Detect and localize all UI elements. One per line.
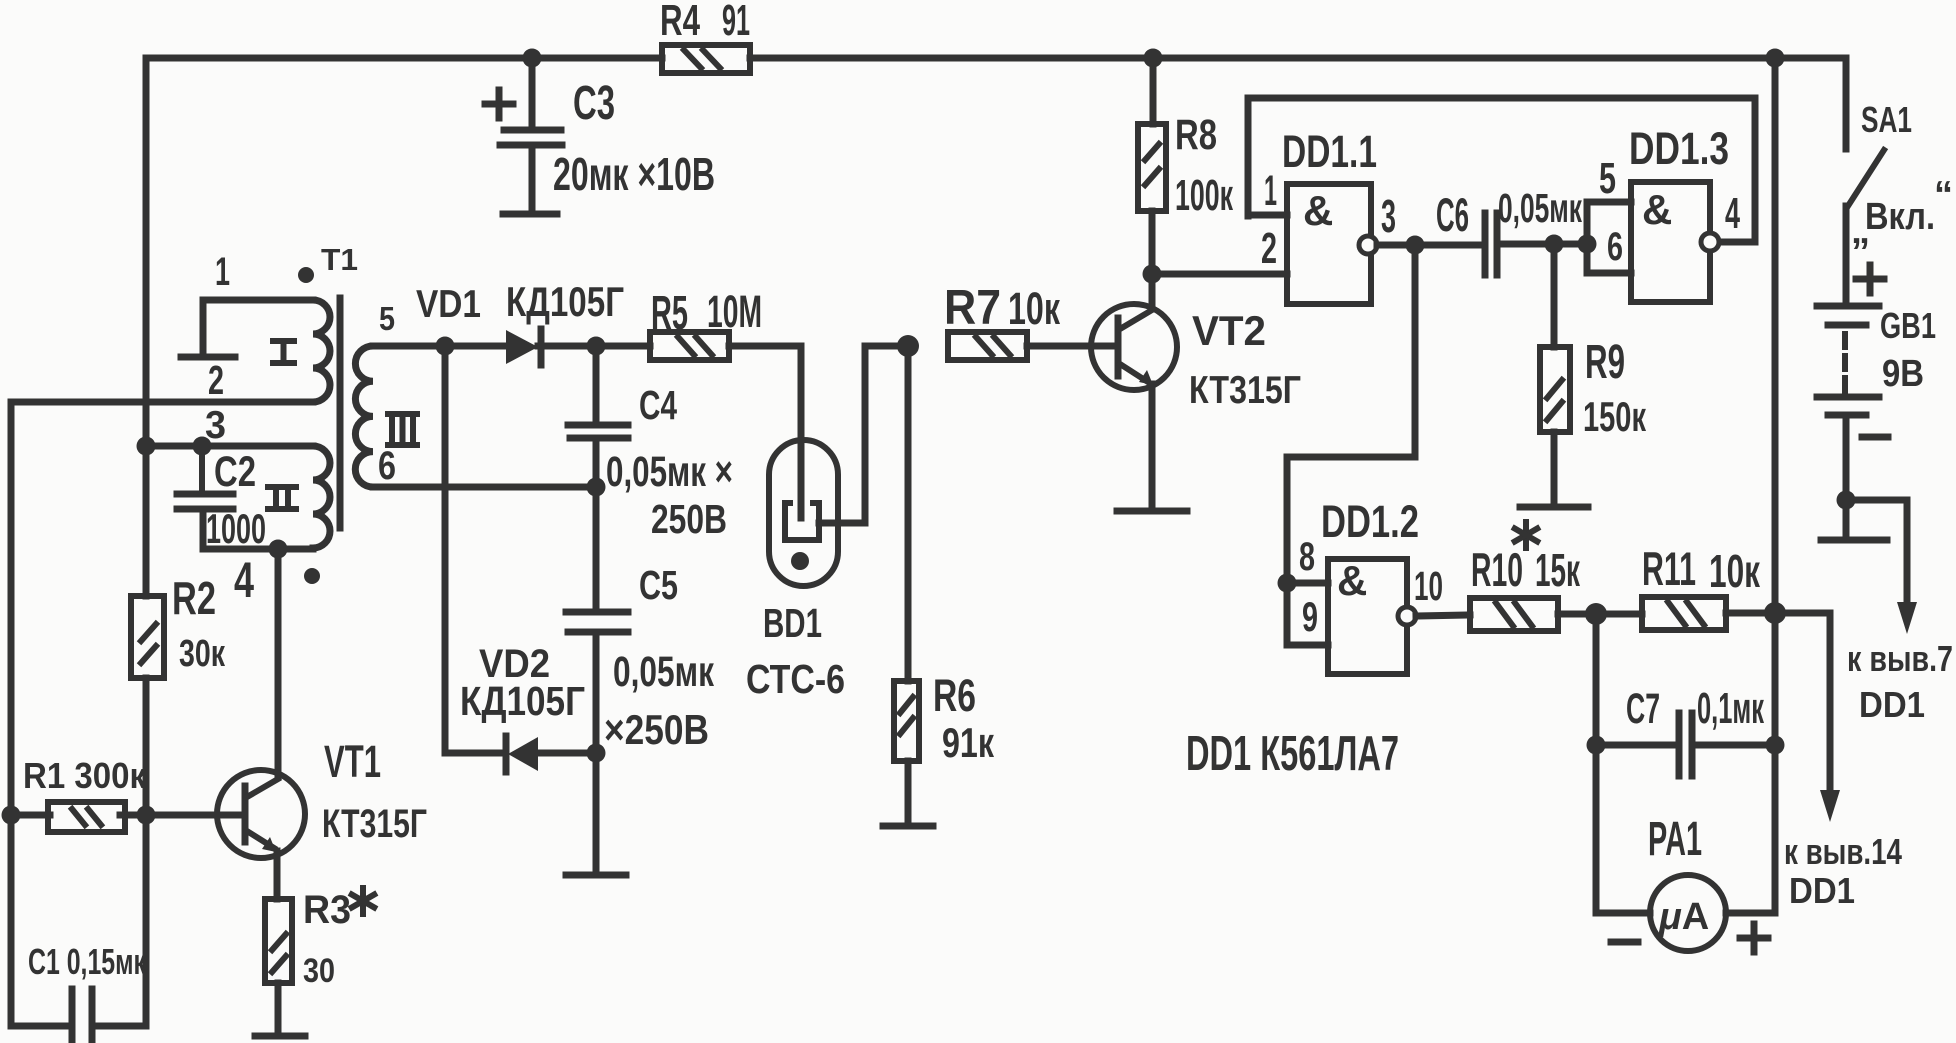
node T1 pin3 / rail junction <box>137 437 156 456</box>
node C7 right rail junction <box>1766 736 1785 755</box>
battery GB1 bottom cell <box>1817 394 1879 401</box>
svg-text:R9: R9 <box>1585 336 1625 389</box>
capacitor C7 <box>1676 713 1683 776</box>
svg-text:R4: R4 <box>660 0 700 45</box>
geiger tube BD1 envelope <box>769 440 838 586</box>
meter PA1 circle <box>1650 875 1726 951</box>
wire SA1 to battery plus <box>1843 206 1850 303</box>
wire top supply rail right segment <box>750 55 1846 62</box>
resistor R5 <box>650 332 729 360</box>
wire VT2 emitter to ground <box>1149 384 1156 508</box>
svg-text:VT2: VT2 <box>1192 307 1266 354</box>
resistor R4 <box>662 45 750 73</box>
wire SA1 top lead <box>1843 58 1850 149</box>
battery GB1 dashed link <box>1842 334 1848 392</box>
node T1 pin4 tap <box>269 540 288 559</box>
svg-text:“: “ <box>1934 174 1953 216</box>
svg-text:0,05мк ×: 0,05мк × <box>606 448 733 496</box>
resistor R9 <box>1540 347 1570 432</box>
wire T1 winding II bottom lead <box>203 509 313 549</box>
ground below VT2 <box>1117 508 1187 515</box>
wire DD1.2 pins 8-9 tie <box>1287 583 1328 645</box>
battery GB1 minus sign <box>1862 434 1888 441</box>
wire PA1 right lead <box>1726 910 1775 917</box>
svg-text:R2: R2 <box>172 572 216 624</box>
transformer T1 winding I coil <box>313 300 330 402</box>
svg-text:С7: С7 <box>1626 685 1660 733</box>
wire R5 to BD1 anode <box>729 346 801 518</box>
wire far-left vertical <box>8 402 15 1026</box>
node right rail tap on top rail <box>1766 49 1785 68</box>
label T1 winding II <box>268 487 296 509</box>
svg-text:30: 30 <box>303 952 335 990</box>
svg-text:1000: 1000 <box>206 505 266 552</box>
node C7 left junction <box>1587 736 1606 755</box>
node DD1.2 input junction <box>1278 574 1297 593</box>
node C3 tap on top rail <box>523 49 542 68</box>
svg-text:91: 91 <box>722 0 750 45</box>
svg-text:10М: 10М <box>707 286 762 337</box>
node C2 tap <box>193 437 212 456</box>
node VD2 anode / C5 bottom junction <box>587 744 606 763</box>
transformer T1 phase dot bottom <box>304 568 320 584</box>
svg-text:15к: 15к <box>1535 544 1581 596</box>
transistor VT1 collector stroke <box>247 779 278 797</box>
wire C7 left lead <box>1596 742 1679 749</box>
wire R6 top lead <box>905 346 912 681</box>
logic gate DD1.2 body <box>1328 559 1407 674</box>
svg-text:PA1: PA1 <box>1648 813 1702 866</box>
svg-text:4: 4 <box>234 552 254 608</box>
wire BD1 cathode lead <box>819 346 908 523</box>
wire C5 node to ground <box>593 753 600 872</box>
svg-text:SA1: SA1 <box>1861 99 1912 140</box>
ground below C5 <box>566 872 626 879</box>
resistor R8 <box>1138 124 1166 211</box>
transistor VT1 circle <box>217 770 305 858</box>
node VD1 cathode / C4 top junction <box>587 337 606 356</box>
wire T1 pin4 to VT1 collector <box>275 549 282 777</box>
resistor R6 <box>894 681 919 761</box>
wire DD1.2 pin8 stub <box>1287 580 1328 587</box>
wire top supply rail left segment <box>146 55 662 62</box>
wire R7 to VT2 base <box>1027 343 1114 350</box>
resistor R3 <box>265 899 292 983</box>
wire DD1.1 pin1 lead <box>1248 212 1287 219</box>
svg-text:10к: 10к <box>1008 283 1060 334</box>
wire C4 bottom lead <box>593 438 600 487</box>
meter PA1 plus sign <box>1740 935 1768 942</box>
logic gate DD1.1 body <box>1287 184 1371 304</box>
svg-text:DD1.1: DD1.1 <box>1282 126 1377 177</box>
wire R1 right lead <box>120 812 146 819</box>
svg-text:GB1: GB1 <box>1880 305 1936 346</box>
transistor VT2 circle <box>1091 304 1177 390</box>
wire DD1.3 pins 5-6 tie <box>1587 202 1631 273</box>
svg-text:3: 3 <box>205 404 226 447</box>
wire VT2 collector lead <box>1149 274 1156 309</box>
svg-text:DD1: DD1 <box>1859 684 1925 725</box>
label T1 winding III <box>388 414 417 445</box>
wire R8 bottom lead <box>1149 211 1156 274</box>
node C4 bottom / pin6 junction <box>587 478 606 497</box>
wire VD1 cathode node to R5 <box>596 343 650 350</box>
wire T1 pin6 lead <box>373 484 596 491</box>
wire T1 pin3 lead <box>146 443 313 450</box>
wire DD1.1 output node to DD1.2 inputs <box>1287 245 1415 583</box>
svg-text:R7: R7 <box>944 281 1001 335</box>
resistor R11 <box>1642 597 1726 630</box>
svg-text:R1 300к: R1 300к <box>23 755 147 796</box>
wire C3 bottom lead <box>529 145 536 211</box>
wire C4 top lead <box>593 346 600 425</box>
transistor VT1 emitter stroke <box>247 831 274 848</box>
capacitor C5 <box>566 609 628 616</box>
wire R10 to R11 <box>1558 611 1642 618</box>
wire T1 pin5 node to VD1 <box>445 343 504 350</box>
svg-text:6: 6 <box>1607 225 1623 269</box>
svg-text:2: 2 <box>208 357 224 403</box>
wire T1 pin2 lead to far-left vertical <box>11 399 313 406</box>
label T1 winding I <box>273 341 294 363</box>
wire DD1.2 output to R10 <box>1416 615 1470 616</box>
capacitor C1 <box>69 989 76 1043</box>
svg-text:КД105Г: КД105Г <box>506 278 624 325</box>
wire C3 top lead <box>529 58 536 130</box>
ground below battery <box>1821 537 1887 544</box>
svg-text:&: & <box>1642 186 1672 233</box>
wire C7 right lead <box>1692 742 1775 749</box>
svg-text:к выв.7: к выв.7 <box>1847 638 1953 679</box>
transformer T1 winding II coil <box>313 446 330 548</box>
svg-text:8: 8 <box>1299 535 1315 579</box>
wire DD1.1 output to C6 node <box>1377 242 1485 249</box>
svg-text:150к: 150к <box>1583 393 1647 440</box>
node BD1 cathode / R6 / R7 junction <box>897 335 919 357</box>
svg-text:100к: 100к <box>1175 171 1234 220</box>
logic gate DD1.3 body <box>1631 182 1710 302</box>
svg-text:20мк ×10В: 20мк ×10В <box>553 148 715 200</box>
svg-text:R3: R3 <box>303 888 351 932</box>
svg-text:С3: С3 <box>573 77 615 130</box>
svg-text:КД105Г: КД105Г <box>460 678 585 724</box>
svg-text:VD1: VD1 <box>416 283 481 326</box>
svg-text:R8: R8 <box>1175 111 1217 159</box>
wire C6 right to DD1.3 inputs <box>1497 241 1587 248</box>
resistor R10 <box>1470 598 1558 631</box>
svg-text:DD1: DD1 <box>1789 870 1855 911</box>
node DD1.3 input junction <box>1578 235 1597 254</box>
svg-text:DD1.3: DD1.3 <box>1629 123 1729 174</box>
logic gate DD1.2 output bubble <box>1398 607 1416 625</box>
node DD1.1 output junction <box>1406 236 1425 255</box>
meter PA1 minus sign <box>1611 939 1638 946</box>
node battery minus junction <box>1837 491 1856 510</box>
geiger tube BD1 anode cup <box>785 503 819 540</box>
node R10 / R11 / C7 junction <box>1585 603 1607 625</box>
resistor R7 <box>948 332 1027 360</box>
svg-text:30к: 30к <box>179 633 226 675</box>
wire to DD1 pin7 with arrow <box>1846 500 1907 612</box>
svg-text:10: 10 <box>1414 563 1443 609</box>
svg-text:5: 5 <box>1599 154 1616 203</box>
wire VT1 emitter to R3 <box>274 851 281 899</box>
capacitor C2 <box>177 491 233 498</box>
wire R3 bottom lead <box>275 983 282 1036</box>
wire R9 top lead <box>1551 244 1558 347</box>
svg-text:КТ315Г: КТ315Г <box>1189 369 1301 412</box>
wire PA1 left lead <box>1596 910 1650 917</box>
svg-text:91к: 91к <box>942 719 995 766</box>
transistor VT2 emitter stroke <box>1120 364 1148 382</box>
ground below R9 <box>1520 504 1588 511</box>
svg-text:С5: С5 <box>639 562 678 608</box>
svg-text:С6: С6 <box>1436 188 1469 241</box>
node R1 left / C1 node <box>2 806 21 825</box>
geiger tube BD1 cathode dot <box>791 552 809 570</box>
wire C5 bottom lead <box>593 632 600 753</box>
svg-text:Вкл.: Вкл. <box>1865 196 1935 238</box>
transformer T1 winding I top lead <box>203 300 313 357</box>
svg-text:9: 9 <box>1302 593 1318 640</box>
svg-text:DD1 К561ЛА7: DD1 К561ЛА7 <box>1186 727 1399 781</box>
ground below R6 <box>883 823 933 830</box>
wire left rail lower <box>143 678 150 1026</box>
resistor R2 <box>131 596 164 678</box>
wire C7 node down to PA1 <box>1593 745 1600 911</box>
capacitor C6 <box>1482 213 1489 275</box>
svg-text:„: „ <box>1851 210 1870 252</box>
wire R10 node down to C7 <box>1593 614 1600 745</box>
resistor R1 <box>48 802 125 832</box>
transformer T1 phase dot top <box>298 267 314 283</box>
wire feedback loop DD1.3 output to DD1.1 pin1 <box>1248 98 1755 242</box>
svg-text:×250В: ×250В <box>604 706 709 753</box>
logic gate DD1.3 output bubble <box>1701 233 1719 251</box>
battery GB1 plus sign <box>1856 276 1884 283</box>
svg-text:С4: С4 <box>639 382 677 428</box>
svg-text:С1 0,15мк: С1 0,15мк <box>28 941 147 982</box>
svg-text:T1: T1 <box>321 242 358 277</box>
node VT1 base / R1 / R2 node <box>137 806 156 825</box>
wire R6 bottom lead <box>905 761 912 824</box>
svg-text:R11: R11 <box>1642 542 1696 595</box>
battery GB1 top cell <box>1817 303 1879 310</box>
capacitor C3 plus sign <box>485 101 513 108</box>
capacitor C4 <box>568 422 628 429</box>
diode VD2 <box>503 736 510 772</box>
svg-text:9В: 9В <box>1882 353 1924 395</box>
node VT2 collector junction <box>1143 265 1162 284</box>
node C6 / R9 junction <box>1545 235 1564 254</box>
svg-text:1: 1 <box>215 250 230 294</box>
svg-text:BD1: BD1 <box>763 600 822 646</box>
svg-text:СТС-6: СТС-6 <box>746 656 845 702</box>
switch SA1 blade <box>1848 150 1884 206</box>
wire R9 bottom lead <box>1551 432 1558 505</box>
svg-text:VT1: VT1 <box>324 736 381 787</box>
svg-text:μА: μА <box>1658 896 1709 938</box>
ground bar below C3 <box>503 211 557 218</box>
svg-text:DD1.2: DD1.2 <box>1321 496 1419 547</box>
svg-text:6: 6 <box>378 444 396 488</box>
transformer T1 pin1 open terminal bar <box>181 354 235 361</box>
svg-text:2: 2 <box>1261 224 1277 273</box>
wire R11 right lead <box>1726 610 1775 617</box>
wire to DD1 pin14 with arrow <box>1775 613 1830 800</box>
wire right rail <box>1772 58 1779 913</box>
svg-text:250В: 250В <box>651 496 727 542</box>
svg-text:0,05мк: 0,05мк <box>613 648 714 696</box>
wire VT2 collector to DD1.1 pin2 <box>1152 271 1287 278</box>
svg-text:&: & <box>1303 187 1333 234</box>
node VD1 anode junction <box>436 337 455 356</box>
svg-text:4: 4 <box>1725 189 1740 238</box>
diode VD1 <box>506 330 538 364</box>
wire C5 top lead <box>593 487 600 612</box>
capacitor C3 <box>504 127 561 134</box>
svg-text:3: 3 <box>1381 190 1396 242</box>
wire left rail upper <box>143 58 150 596</box>
svg-text:1: 1 <box>1264 167 1277 215</box>
svg-text:к выв.14: к выв.14 <box>1784 831 1902 872</box>
transformer T1 winding III coil <box>355 346 373 487</box>
svg-text:0,1мк: 0,1мк <box>1697 684 1765 733</box>
wire bottom left C1 run left <box>11 1023 72 1030</box>
wire T1 pin5 lead <box>373 343 445 350</box>
node R11 right rail junction <box>1764 602 1786 624</box>
transistor VT2 collector stroke <box>1120 310 1152 329</box>
transformer T1 core <box>337 298 344 528</box>
svg-text:R10: R10 <box>1471 543 1523 596</box>
logic gate DD1.1 output bubble <box>1359 236 1377 254</box>
wire R1 left lead <box>11 812 50 819</box>
svg-text:5: 5 <box>379 300 395 337</box>
transistor VT2 base bar <box>1115 318 1122 376</box>
wire bottom left C1 run right <box>92 1023 146 1030</box>
wire R8 top lead <box>1150 58 1157 124</box>
node R8 tap on top rail <box>1144 49 1163 68</box>
svg-text:КТ315Г: КТ315Г <box>322 802 427 846</box>
transistor VT1 base bar <box>242 786 249 842</box>
svg-text:R6: R6 <box>933 670 976 721</box>
svg-text:&: & <box>1337 557 1367 604</box>
ground below R3 <box>255 1033 305 1040</box>
svg-text:R5: R5 <box>651 287 688 340</box>
wire VT1 base lead <box>146 812 241 819</box>
svg-text:0,05мк: 0,05мк <box>1498 185 1582 231</box>
wire VD1 anode node down to VD2 <box>445 346 504 753</box>
wire battery to ground <box>1843 500 1850 537</box>
svg-text:10к: 10к <box>1709 545 1761 597</box>
wire battery minus lead <box>1843 415 1850 500</box>
svg-text:С2: С2 <box>214 448 256 496</box>
